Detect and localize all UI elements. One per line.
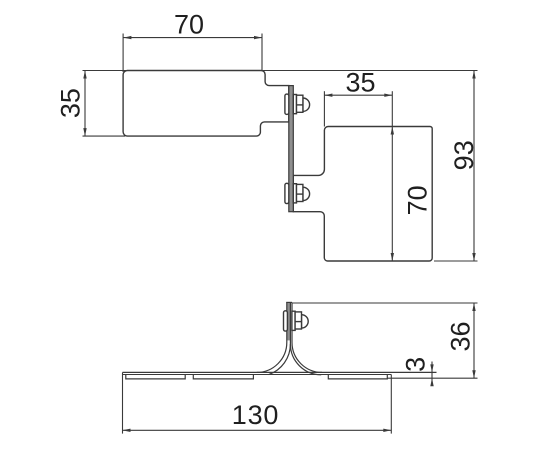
svg-text:35: 35 xyxy=(345,67,375,97)
plate left end cap xyxy=(122,372,124,375)
right sheet outer bend line xyxy=(292,302,322,372)
wing under-segment 2 xyxy=(193,375,253,379)
top cap of centre strip xyxy=(286,301,292,303)
upper arm outline xyxy=(123,71,289,137)
bolt B3 (plan view) xyxy=(284,311,309,331)
extension line: 130 right ext xyxy=(390,375,392,434)
extension line: 36 top ext xyxy=(292,302,478,304)
extension line: bottom ext of left 35 dim xyxy=(83,135,126,137)
extension line: left ext of top 70 dim xyxy=(122,34,124,73)
extension line: 3/36 bottom ext xyxy=(388,377,478,379)
wing under-segment 1 xyxy=(126,375,185,379)
lower arm outline xyxy=(293,127,432,262)
dimension line 93 xyxy=(473,71,475,262)
dimension line 3 (outside arrows) xyxy=(431,362,433,384)
right sheet inner bend line xyxy=(290,344,321,375)
dimension line 35 top-right xyxy=(324,94,392,96)
dimension line 70 vertical xyxy=(391,127,393,262)
extension line: right ext of top 70 dim xyxy=(261,34,263,71)
svg-text:70: 70 xyxy=(402,185,432,215)
extension line: 130 left ext xyxy=(122,375,124,434)
extension line: bottom ext of 93 dim xyxy=(434,260,478,262)
extension line: long top line y=70.5 (35-left ext + arm top edge + 93 top ext) xyxy=(83,70,478,72)
svg-text:35: 35 xyxy=(55,88,85,118)
svg-text:36: 36 xyxy=(445,321,475,351)
extension line: left ext of 35 top dim xyxy=(323,91,325,126)
left sheet outer bend line xyxy=(257,302,287,372)
plate strip lower surface line xyxy=(123,374,392,376)
bolt B1 (upper) xyxy=(285,94,310,114)
svg-text:93: 93 xyxy=(449,140,479,170)
svg-text:3: 3 xyxy=(401,357,431,372)
grey vertical bar (plate edge-on) xyxy=(287,302,291,340)
dimension line 35 left xyxy=(84,71,86,137)
svg-text:130: 130 xyxy=(232,400,279,430)
left sheet inner bend line xyxy=(269,302,291,374)
bolt B2 (lower) xyxy=(285,183,310,203)
extension line: right ext of 35 top dim / 70 vert dim line xyxy=(391,91,393,126)
dimension line 36 xyxy=(473,303,475,378)
dimension line 70 top xyxy=(123,37,262,39)
dimension line 130 xyxy=(123,429,392,431)
mounting plate (side view, grey) xyxy=(289,86,294,212)
svg-text:70: 70 xyxy=(174,10,204,40)
plate strip top surface line (with 3-dim top ext) xyxy=(123,371,437,373)
wing under-segment 3 xyxy=(328,375,387,379)
